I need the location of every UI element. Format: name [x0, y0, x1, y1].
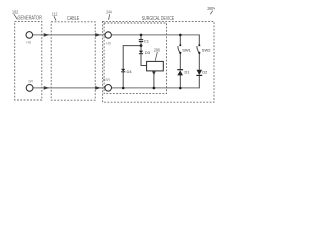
- svg-text:SW2: SW2: [202, 47, 211, 52]
- svg-text:SW1: SW1: [182, 47, 191, 52]
- svg-text:SURGICAL DEVICE: SURGICAL DEVICE: [142, 16, 175, 22]
- svg-text:D2: D2: [202, 71, 207, 75]
- svg-text:SR: SR: [28, 80, 33, 84]
- svg-text:296: 296: [154, 47, 160, 52]
- svg-text:HSR: HSR: [103, 78, 111, 82]
- svg-text:280: 280: [207, 6, 213, 11]
- svg-text:C1: C1: [144, 38, 150, 43]
- svg-text:GENERATOR: GENERATOR: [18, 16, 43, 22]
- svg-text:HS: HS: [26, 41, 31, 45]
- svg-text:D4: D4: [127, 69, 133, 74]
- svg-text:D3: D3: [145, 50, 151, 55]
- svg-text:112: 112: [52, 11, 58, 16]
- svg-text:102: 102: [12, 9, 19, 14]
- svg-text:CABLE: CABLE: [67, 16, 80, 22]
- svg-text:HS: HS: [106, 42, 111, 46]
- svg-text:244: 244: [106, 10, 112, 15]
- svg-text:D1: D1: [185, 71, 190, 75]
